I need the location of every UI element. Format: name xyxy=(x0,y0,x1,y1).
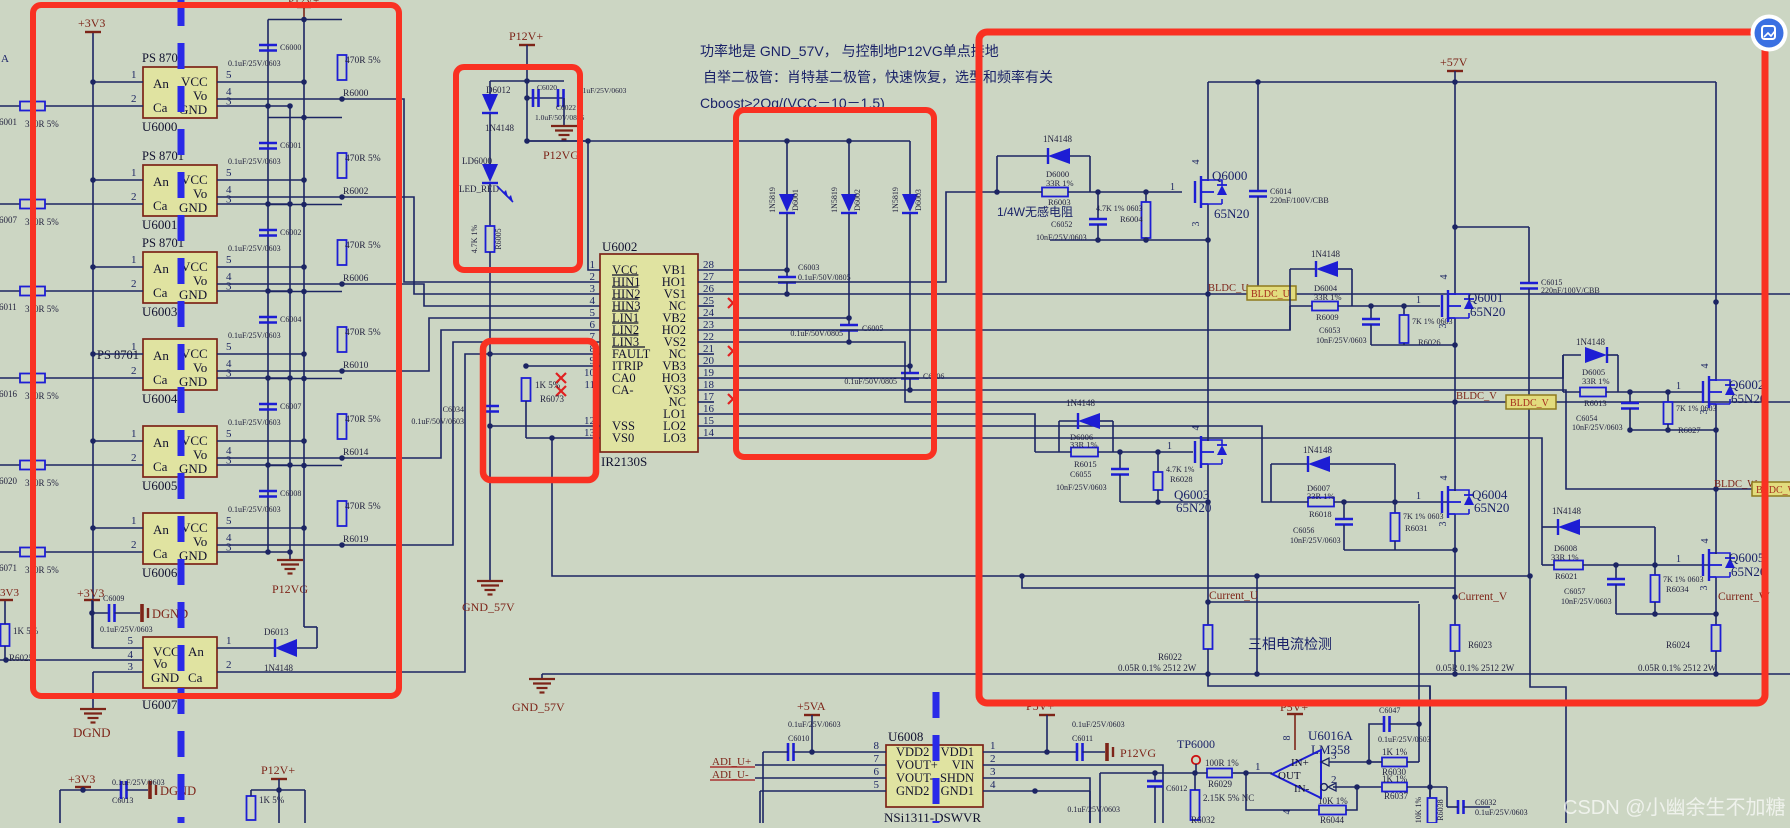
svg-text:GND: GND xyxy=(179,200,207,215)
svg-text:VCC: VCC xyxy=(181,520,208,535)
svg-text:10K 1%: 10K 1% xyxy=(1414,796,1423,823)
svg-text:VDD1: VDD1 xyxy=(941,745,974,759)
svg-text:R6004: R6004 xyxy=(1120,214,1143,224)
svg-text:R6006: R6006 xyxy=(343,274,369,284)
svg-text:Vo: Vo xyxy=(193,534,207,549)
svg-text:0.1uF/50V/0805: 0.1uF/50V/0805 xyxy=(798,273,851,282)
svg-text:R6015: R6015 xyxy=(1074,459,1097,469)
svg-text:C6057: C6057 xyxy=(1564,587,1585,596)
svg-text:P12VG: P12VG xyxy=(272,582,308,596)
svg-text:Current_U: Current_U xyxy=(1209,590,1259,602)
svg-text:1: 1 xyxy=(1676,381,1681,392)
svg-text:R6021: R6021 xyxy=(1555,571,1578,581)
svg-text:LO3: LO3 xyxy=(663,431,686,445)
svg-text:5: 5 xyxy=(874,779,880,791)
svg-text:0.1uF/25V/0603: 0.1uF/25V/0603 xyxy=(1378,735,1431,744)
svg-text:C6008: C6008 xyxy=(280,489,301,498)
svg-text:7K 1% 0603: 7K 1% 0603 xyxy=(1676,404,1716,413)
svg-text:470R 5%: 470R 5% xyxy=(345,56,381,66)
svg-text:1N5819: 1N5819 xyxy=(830,187,839,213)
svg-text:ADI_U+: ADI_U+ xyxy=(712,756,751,768)
svg-text:1: 1 xyxy=(1416,491,1421,502)
svg-text:33R 1%: 33R 1% xyxy=(1314,292,1342,302)
svg-text:1K 5%: 1K 5% xyxy=(259,795,285,805)
svg-text:Vo: Vo xyxy=(193,88,207,103)
svg-text:0.1uF/25V/0603: 0.1uF/25V/0603 xyxy=(228,157,281,166)
svg-text:An: An xyxy=(188,644,204,659)
svg-text:8: 8 xyxy=(874,740,880,752)
svg-text:VDD2: VDD2 xyxy=(896,745,929,759)
svg-text:4: 4 xyxy=(990,779,996,791)
svg-text:GND: GND xyxy=(179,374,207,389)
svg-text:IN+: IN+ xyxy=(1291,757,1309,769)
svg-text:C6010: C6010 xyxy=(788,734,809,743)
svg-text:5: 5 xyxy=(226,341,232,353)
svg-text:2: 2 xyxy=(990,753,996,765)
svg-text:1N4148: 1N4148 xyxy=(1576,337,1605,347)
svg-text:自举二极管：肖特基二极管，快速恢复，选型和频率有关: 自举二极管：肖特基二极管，快速恢复，选型和频率有关 xyxy=(703,69,1053,85)
svg-text:1K 1%: 1K 1% xyxy=(1382,747,1408,757)
svg-text:An: An xyxy=(153,435,169,450)
svg-text:R6024: R6024 xyxy=(1666,640,1691,650)
svg-text:1: 1 xyxy=(1170,182,1175,193)
svg-text:470R 5%: 470R 5% xyxy=(345,328,381,338)
svg-text:U6006: U6006 xyxy=(142,565,178,580)
svg-text:LD6000: LD6000 xyxy=(462,156,492,166)
svg-text:BLDC_U: BLDC_U xyxy=(1208,283,1249,294)
svg-text:4.7K 1%: 4.7K 1% xyxy=(470,224,479,253)
svg-text:Q6002: Q6002 xyxy=(1729,377,1764,392)
svg-text:P12VG: P12VG xyxy=(1120,746,1156,760)
svg-text:7: 7 xyxy=(874,753,880,765)
svg-text:C6052: C6052 xyxy=(1051,220,1072,229)
svg-text:Ca: Ca xyxy=(153,285,168,300)
svg-text:GND2: GND2 xyxy=(896,784,929,798)
svg-text:4: 4 xyxy=(1191,160,1202,165)
svg-text:R6010: R6010 xyxy=(343,361,369,371)
svg-text:C6053: C6053 xyxy=(1319,326,1340,335)
svg-text:Current_V: Current_V xyxy=(1458,591,1508,603)
svg-text:2.15K 5% NC: 2.15K 5% NC xyxy=(1203,793,1254,803)
svg-text:3: 3 xyxy=(226,96,232,108)
svg-text:3: 3 xyxy=(990,766,996,778)
svg-text:2: 2 xyxy=(131,93,137,105)
svg-text:5: 5 xyxy=(226,254,232,266)
svg-text:R6007: R6007 xyxy=(0,215,18,225)
svg-text:R6038: R6038 xyxy=(1436,799,1445,820)
svg-text:IN-: IN- xyxy=(1294,783,1310,795)
svg-text:1: 1 xyxy=(1167,441,1172,452)
svg-text:1/4W无感电阻: 1/4W无感电阻 xyxy=(997,204,1073,219)
svg-text:R6071: R6071 xyxy=(0,563,17,573)
svg-text:0.1uF/25V/0603: 0.1uF/25V/0603 xyxy=(100,625,153,634)
svg-text:CSDN @小幽余生不加糖: CSDN @小幽余生不加糖 xyxy=(1563,796,1786,819)
svg-text:0.1uF/25V/0603: 0.1uF/25V/0603 xyxy=(112,778,165,787)
svg-text:C6022: C6022 xyxy=(556,103,576,112)
svg-text:65N20: 65N20 xyxy=(1731,391,1766,406)
svg-text:65N20: 65N20 xyxy=(1731,564,1766,579)
svg-text:+3V3: +3V3 xyxy=(77,586,104,600)
svg-text:OUT: OUT xyxy=(1278,770,1301,782)
svg-text:3: 3 xyxy=(226,194,232,206)
svg-text:R6023: R6023 xyxy=(1468,640,1493,650)
svg-text:R6000: R6000 xyxy=(343,89,369,99)
svg-text:7K 1% 0603: 7K 1% 0603 xyxy=(1403,512,1443,521)
svg-text:BLDC_V: BLDC_V xyxy=(1510,398,1550,409)
svg-text:IR2130S: IR2130S xyxy=(601,454,647,469)
svg-text:Vo: Vo xyxy=(193,360,207,375)
svg-text:R6013: R6013 xyxy=(1584,398,1607,408)
svg-text:1N5819: 1N5819 xyxy=(768,187,777,213)
svg-text:VCC: VCC xyxy=(181,346,208,361)
svg-text:0.1uF/25V/0603: 0.1uF/25V/0603 xyxy=(228,418,281,427)
svg-text:Ca: Ca xyxy=(153,459,168,474)
svg-text:C6056: C6056 xyxy=(1293,526,1314,535)
svg-text:+3V3: +3V3 xyxy=(68,772,95,786)
svg-text:功率地是 GND_57V， 与控制地P12VG单点接地: 功率地是 GND_57V， 与控制地P12VG单点接地 xyxy=(700,43,999,59)
svg-text:U6007: U6007 xyxy=(142,697,178,712)
svg-text:VCC: VCC xyxy=(181,433,208,448)
svg-text:5: 5 xyxy=(226,167,232,179)
svg-text:D6002: D6002 xyxy=(853,189,862,211)
svg-text:1N4148: 1N4148 xyxy=(1043,134,1072,144)
svg-text:3: 3 xyxy=(1331,750,1337,762)
svg-text:C6055: C6055 xyxy=(1070,470,1091,479)
svg-text:1: 1 xyxy=(1676,554,1681,565)
svg-text:4.7K 1%: 4.7K 1% xyxy=(1166,465,1195,474)
svg-text:CA-: CA- xyxy=(612,383,634,397)
svg-text:3: 3 xyxy=(1438,324,1449,329)
svg-text:1K 5%: 1K 5% xyxy=(535,380,561,390)
svg-text:R6022: R6022 xyxy=(1158,652,1182,662)
svg-text:SHDN: SHDN xyxy=(940,771,974,785)
svg-text:R6001: R6001 xyxy=(0,117,17,127)
svg-text:VIN: VIN xyxy=(952,758,974,772)
svg-text:5: 5 xyxy=(590,307,596,319)
svg-text:LED_RED: LED_RED xyxy=(459,184,499,194)
svg-text:3: 3 xyxy=(1191,222,1202,227)
svg-text:0.1uF/25V/0603: 0.1uF/25V/0603 xyxy=(788,720,841,729)
svg-text:BLDC_V: BLDC_V xyxy=(1456,391,1497,402)
svg-text:GND: GND xyxy=(151,670,179,685)
svg-text:4: 4 xyxy=(1700,539,1711,544)
svg-text:470R 5%: 470R 5% xyxy=(345,502,381,512)
svg-text:10nF/25V/0603: 10nF/25V/0603 xyxy=(1561,597,1612,606)
svg-text:+3V3: +3V3 xyxy=(78,16,105,30)
svg-text:3: 3 xyxy=(1699,586,1710,591)
svg-text:GND_57V: GND_57V xyxy=(462,600,515,614)
svg-text:2: 2 xyxy=(131,278,137,290)
svg-text:C6003: C6003 xyxy=(798,263,819,272)
svg-text:2: 2 xyxy=(131,539,137,551)
svg-text:VS0: VS0 xyxy=(612,431,634,445)
svg-text:+57V: +57V xyxy=(1440,55,1468,69)
svg-text:4: 4 xyxy=(1700,364,1711,369)
svg-text:100R 1%: 100R 1% xyxy=(1205,758,1239,768)
svg-text:R6011: R6011 xyxy=(0,302,17,312)
svg-text:R6032: R6032 xyxy=(1191,815,1215,823)
svg-text:U6000: U6000 xyxy=(142,119,177,134)
svg-text:0.05R 0.1% 2512 2W: 0.05R 0.1% 2512 2W xyxy=(1638,663,1717,673)
svg-text:0.1uF/25V/0603: 0.1uF/25V/0603 xyxy=(1067,805,1120,814)
svg-text:GND: GND xyxy=(179,287,207,302)
svg-text:10nF/25V/0603: 10nF/25V/0603 xyxy=(1290,536,1341,545)
svg-text:33R 1%: 33R 1% xyxy=(1307,491,1335,501)
svg-text:1: 1 xyxy=(1416,295,1421,306)
svg-text:3: 3 xyxy=(226,455,232,467)
svg-text:D6001: D6001 xyxy=(791,189,800,211)
svg-text:3: 3 xyxy=(226,542,232,554)
svg-text:1N4148: 1N4148 xyxy=(1311,249,1340,259)
svg-text:65N20: 65N20 xyxy=(1176,500,1211,515)
svg-text:Q6005: Q6005 xyxy=(1729,550,1764,565)
svg-text:P12V+: P12V+ xyxy=(261,763,295,777)
svg-text:R6030: R6030 xyxy=(1382,767,1407,777)
svg-text:0.1uF/50V/0603: 0.1uF/50V/0603 xyxy=(411,417,464,426)
svg-text:VCC: VCC xyxy=(181,259,208,274)
svg-text:6: 6 xyxy=(590,319,596,331)
svg-text:1: 1 xyxy=(131,69,137,81)
svg-text:R6016: R6016 xyxy=(0,389,18,399)
svg-text:1N4148: 1N4148 xyxy=(485,123,514,133)
svg-text:Ca: Ca xyxy=(153,100,168,115)
svg-text:BLDC_U: BLDC_U xyxy=(1251,289,1291,300)
svg-text:3: 3 xyxy=(226,368,232,380)
svg-text:0.05R 0.1% 2512 2W: 0.05R 0.1% 2512 2W xyxy=(1436,663,1515,673)
svg-text:P12VG: P12VG xyxy=(543,148,579,162)
svg-text:Ca: Ca xyxy=(153,198,168,213)
svg-text:1: 1 xyxy=(131,167,137,179)
svg-text:R6019: R6019 xyxy=(343,535,369,545)
svg-text:Ca: Ca xyxy=(188,670,203,685)
svg-text:1: 1 xyxy=(131,428,137,440)
svg-text:D6012: D6012 xyxy=(486,85,511,95)
svg-text:220nF/100V/CBB: 220nF/100V/CBB xyxy=(1270,196,1329,205)
svg-text:GND_57V: GND_57V xyxy=(512,700,565,714)
svg-text:Ca: Ca xyxy=(153,546,168,561)
svg-text:1N4148: 1N4148 xyxy=(1552,506,1581,516)
svg-text:三相电流检测: 三相电流检测 xyxy=(1248,636,1332,652)
svg-text:U6008: U6008 xyxy=(888,729,923,744)
svg-text:GND1: GND1 xyxy=(941,784,974,798)
svg-text:R6014: R6014 xyxy=(343,448,369,458)
svg-text:Vo: Vo xyxy=(153,656,167,671)
svg-text:R6034: R6034 xyxy=(1666,584,1689,594)
svg-text:1: 1 xyxy=(990,740,996,752)
svg-text:VCC: VCC xyxy=(181,172,208,187)
svg-text:0.05R 0.1% 2512 2W: 0.05R 0.1% 2512 2W xyxy=(1118,663,1197,673)
svg-text:470R 5%: 470R 5% xyxy=(345,154,381,164)
svg-text:65N20: 65N20 xyxy=(1470,304,1505,319)
svg-text:8: 8 xyxy=(1282,736,1293,741)
svg-text:10nF/25V/0603: 10nF/25V/0603 xyxy=(1316,336,1367,345)
svg-text:4: 4 xyxy=(1439,275,1450,280)
svg-text:33R 1%: 33R 1% xyxy=(1551,552,1579,562)
svg-text:33R 1%: 33R 1% xyxy=(1070,440,1098,450)
svg-text:0.1uF/25V/0603: 0.1uF/25V/0603 xyxy=(228,505,281,514)
svg-text:VOUT+: VOUT+ xyxy=(896,758,938,772)
svg-text:10nF/25V/0603: 10nF/25V/0603 xyxy=(1572,423,1623,432)
svg-text:1: 1 xyxy=(226,635,232,647)
svg-text:An: An xyxy=(153,76,169,91)
svg-text:Vo: Vo xyxy=(193,186,207,201)
svg-text:A: A xyxy=(1,53,9,65)
svg-text:C6047: C6047 xyxy=(1379,706,1400,715)
svg-text:R6020: R6020 xyxy=(0,476,18,486)
svg-text:0.1uF/25V/0603: 0.1uF/25V/0603 xyxy=(228,331,281,340)
svg-text:C6014: C6014 xyxy=(1270,187,1291,196)
svg-text:65N20: 65N20 xyxy=(1214,206,1249,221)
svg-text:D6013: D6013 xyxy=(264,627,289,637)
svg-text:2: 2 xyxy=(131,191,137,203)
svg-text:An: An xyxy=(153,261,169,276)
svg-text:10nF/25V/0603: 10nF/25V/0603 xyxy=(1056,483,1107,492)
svg-text:2: 2 xyxy=(131,452,137,464)
svg-text:C6000: C6000 xyxy=(280,43,301,52)
svg-text:5: 5 xyxy=(226,515,232,527)
svg-text:BLDC_W: BLDC_W xyxy=(1756,485,1790,496)
svg-text:ADI_U-: ADI_U- xyxy=(712,769,749,781)
svg-text:Vo: Vo xyxy=(193,447,207,462)
svg-text:R6025: R6025 xyxy=(9,653,34,663)
svg-text:4: 4 xyxy=(1191,426,1202,431)
svg-text:0.1uF/25V/0603: 0.1uF/25V/0603 xyxy=(577,86,627,95)
svg-text:C6004: C6004 xyxy=(280,315,301,324)
svg-text:C6002: C6002 xyxy=(280,228,301,237)
svg-text:Q6000: Q6000 xyxy=(1212,168,1247,183)
svg-text:5: 5 xyxy=(226,69,232,81)
svg-text:C6011: C6011 xyxy=(1072,734,1093,743)
svg-text:U6016A: U6016A xyxy=(1308,728,1353,743)
svg-text:Vo: Vo xyxy=(193,273,207,288)
svg-text:VCC: VCC xyxy=(181,74,208,89)
svg-text:R6005: R6005 xyxy=(494,228,503,249)
svg-text:4.7K 1% 0603: 4.7K 1% 0603 xyxy=(1096,204,1142,213)
svg-text:C6054: C6054 xyxy=(1576,414,1597,423)
svg-text:C6009: C6009 xyxy=(103,594,124,603)
svg-text:C6012: C6012 xyxy=(1166,784,1187,793)
svg-text:U6001: U6001 xyxy=(142,217,177,232)
svg-text:C6001: C6001 xyxy=(280,141,301,150)
svg-text:2: 2 xyxy=(1331,774,1337,786)
svg-text:R6031: R6031 xyxy=(1405,523,1428,533)
svg-text:0.1uF/25V/0603: 0.1uF/25V/0603 xyxy=(228,59,281,68)
svg-text:C6034: C6034 xyxy=(443,405,464,414)
svg-text:33R 1%: 33R 1% xyxy=(1046,178,1074,188)
svg-text:4: 4 xyxy=(1439,476,1450,481)
svg-text:Q6001: Q6001 xyxy=(1468,290,1503,305)
svg-text:P12V+: P12V+ xyxy=(509,29,543,43)
svg-text:C6032: C6032 xyxy=(1475,798,1496,807)
svg-text:U6002: U6002 xyxy=(602,239,637,254)
svg-text:470R 5%: 470R 5% xyxy=(345,415,381,425)
svg-text:3V3: 3V3 xyxy=(0,587,19,599)
svg-text:10K 1%: 10K 1% xyxy=(1318,796,1348,806)
svg-text:2: 2 xyxy=(590,271,596,283)
svg-text:R6018: R6018 xyxy=(1309,509,1332,519)
svg-text:1N4148: 1N4148 xyxy=(1303,445,1332,455)
svg-text:U6004: U6004 xyxy=(142,391,178,406)
svg-text:R6028: R6028 xyxy=(1170,474,1193,484)
svg-text:1N5819: 1N5819 xyxy=(891,187,900,213)
svg-text:C6005: C6005 xyxy=(862,324,883,333)
svg-text:3: 3 xyxy=(590,283,596,295)
svg-text:+5VA: +5VA xyxy=(797,699,826,713)
svg-text:U6005: U6005 xyxy=(142,478,177,493)
svg-text:7K 1% 0603: 7K 1% 0603 xyxy=(1663,575,1703,584)
svg-text:BLDC_W: BLDC_W xyxy=(1714,479,1757,490)
svg-text:1: 1 xyxy=(131,254,137,266)
svg-text:6: 6 xyxy=(874,766,880,778)
svg-text:R6073: R6073 xyxy=(540,394,565,404)
svg-text:0.1uF/25V/0603: 0.1uF/25V/0603 xyxy=(1072,720,1125,729)
svg-text:An: An xyxy=(153,174,169,189)
svg-text:U6003: U6003 xyxy=(142,304,177,319)
svg-text:R6002: R6002 xyxy=(343,187,369,197)
svg-text:1: 1 xyxy=(131,515,137,527)
svg-text:C6013: C6013 xyxy=(112,796,133,805)
svg-text:3: 3 xyxy=(1438,522,1449,527)
svg-text:0.1uF/25V/0603: 0.1uF/25V/0603 xyxy=(228,244,281,253)
svg-text:An: An xyxy=(153,522,169,537)
svg-text:C6007: C6007 xyxy=(280,402,301,411)
svg-text:DGND: DGND xyxy=(73,725,111,740)
svg-text:2: 2 xyxy=(131,365,137,377)
svg-text:Ca: Ca xyxy=(153,372,168,387)
svg-text:1: 1 xyxy=(1255,761,1261,773)
svg-text:1: 1 xyxy=(131,341,137,353)
svg-text:R6009: R6009 xyxy=(1316,312,1339,322)
svg-text:R6037: R6037 xyxy=(1384,791,1409,801)
svg-text:TP6000: TP6000 xyxy=(1177,737,1215,751)
svg-text:1N4148: 1N4148 xyxy=(1066,398,1095,408)
svg-text:D6003: D6003 xyxy=(914,189,923,211)
svg-text:C6020: C6020 xyxy=(537,83,557,92)
svg-text:VOUT-: VOUT- xyxy=(896,771,934,785)
svg-text:2: 2 xyxy=(226,659,232,671)
svg-text:3: 3 xyxy=(1699,410,1710,415)
svg-text:65N20: 65N20 xyxy=(1474,500,1509,515)
svg-text:R6029: R6029 xyxy=(1208,779,1233,789)
svg-text:220nF/100V/CBB: 220nF/100V/CBB xyxy=(1541,286,1600,295)
svg-text:R6044: R6044 xyxy=(1320,815,1345,823)
svg-text:An: An xyxy=(153,348,169,363)
svg-text:3: 3 xyxy=(226,281,232,293)
svg-text:470R 5%: 470R 5% xyxy=(345,241,381,251)
svg-text:33R 1%: 33R 1% xyxy=(1582,376,1610,386)
svg-text:0.1uF/25V/0603: 0.1uF/25V/0603 xyxy=(1475,808,1528,817)
svg-text:4: 4 xyxy=(590,295,596,307)
svg-text:5: 5 xyxy=(226,428,232,440)
svg-text:5: 5 xyxy=(128,635,134,647)
